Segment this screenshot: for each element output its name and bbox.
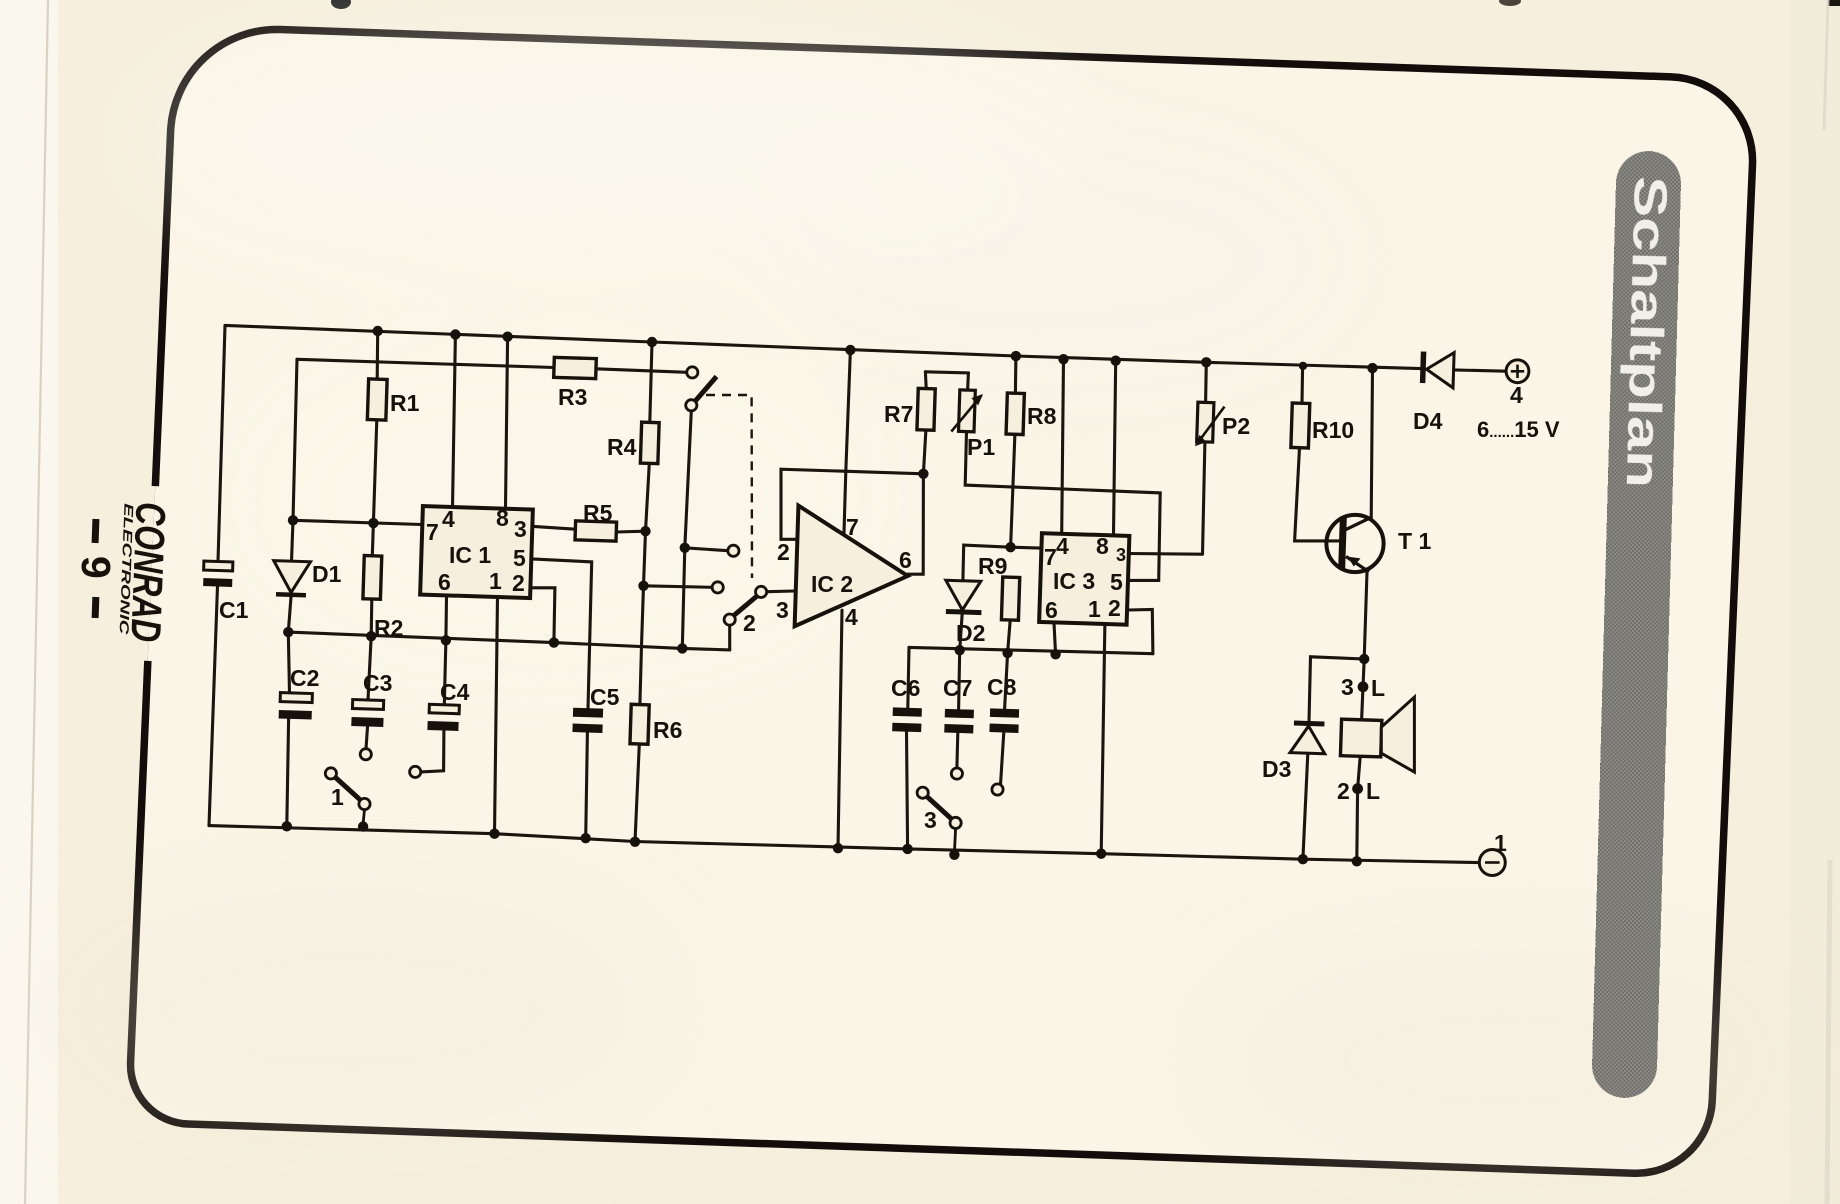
wire C8 top lead (1005, 653, 1008, 709)
capacitor C7 (944, 709, 974, 734)
junction node (1363,686.8) (1358, 681, 1369, 692)
minus terminal 1 (1479, 850, 1505, 876)
capacitor C8 (989, 708, 1019, 733)
svg-text:2: 2 (1337, 778, 1350, 804)
wire IC3 pin1 to ground (1101, 623, 1105, 854)
wire R2 bottom lead (370, 599, 374, 636)
svg-text:IC 2: IC 2 (811, 571, 853, 597)
wire IC3 pin8 supply (1114, 361, 1116, 535)
svg-text:P1: P1 (967, 434, 995, 460)
svg-text:5: 5 (1110, 569, 1123, 595)
diode D1 (273, 561, 311, 598)
wire switch2b to IC2 pin3 (767, 589, 795, 593)
svg-text:8: 8 (496, 505, 509, 531)
junction node (907.6,848.9) (902, 844, 912, 854)
junction node (1010.6,547.2) (1005, 542, 1015, 552)
wire P2 bottom lead (1203, 442, 1205, 554)
svg-text:L: L (1366, 778, 1380, 804)
switch 3 (917, 787, 961, 853)
diode D2 (945, 580, 983, 615)
wire C6 top lead (908, 647, 909, 707)
switch 2b (712, 545, 767, 625)
wire IC1 pin5 to C5 (532, 559, 592, 708)
svg-text:1: 1 (489, 568, 502, 594)
capacitor C3 open terminal (360, 749, 371, 760)
junction node (286.8,826.3) (282, 821, 292, 831)
wire C3 top lead (368, 636, 371, 700)
svg-text:C1: C1 (219, 597, 249, 623)
wire C4 bottom stub (421, 730, 444, 772)
junction node (1015.9,356.1) (1011, 351, 1021, 361)
svg-text:C5: C5 (590, 684, 620, 710)
wire mid rail to IC1 pin7 (293, 520, 422, 524)
wire C5 bottom lead (586, 733, 588, 839)
resistor R10 (1291, 403, 1310, 448)
resistor R7 (917, 388, 935, 430)
junction node (585.7,838.2) (581, 833, 591, 843)
switch 2a (686, 367, 717, 411)
svg-text:3: 3 (1116, 545, 1126, 565)
junction node (954.4,854.8) (949, 850, 959, 860)
svg-text:1: 1 (1494, 830, 1507, 856)
svg-text:C2: C2 (290, 665, 319, 691)
junction node (923.4,473.8) (918, 469, 928, 479)
wire R10 top lead (1300, 366, 1304, 403)
svg-text:C7: C7 (943, 675, 972, 701)
switch 1 (325, 768, 370, 824)
svg-text:7: 7 (426, 519, 439, 545)
speaker horn (1381, 697, 1414, 772)
diode D4 (1420, 351, 1454, 387)
potentiometer P1 (951, 390, 983, 433)
svg-text:3: 3 (514, 516, 527, 542)
wire R6 bottom lead (635, 744, 639, 842)
capacitor C8 open terminal (992, 784, 1003, 795)
wire switch2b stub (728, 625, 731, 650)
junction node (373.4,523.1) (368, 518, 378, 528)
svg-text:3: 3 (924, 807, 937, 833)
junction node (377.7,331) (373, 326, 383, 336)
wire C7 bottom lead (955, 733, 959, 768)
junction node (445.9,640.3) (441, 635, 451, 645)
wire P1 top lead (966, 373, 970, 390)
svg-text:C4: C4 (440, 679, 470, 705)
junction node (1055.6,654.3) (1050, 649, 1060, 659)
wire IC1 pin6 to C4 (444, 596, 446, 705)
svg-text:Schaltplan: Schaltplan (1617, 176, 1677, 489)
svg-text:2: 2 (512, 570, 525, 596)
resistor R8 (1006, 393, 1024, 435)
junction node (553.9,642.6) (549, 637, 559, 647)
svg-text:T 1: T 1 (1398, 528, 1431, 554)
wire R8 top lead (1014, 356, 1018, 393)
wire D1 cathode to C2 (288, 595, 291, 693)
capacitor C6 (892, 707, 922, 732)
wire R5 to R4 node (616, 530, 645, 534)
wire D1 anode chain (292, 359, 298, 561)
resistor R1 (367, 379, 387, 420)
svg-text:9: 9 (73, 556, 119, 579)
wire L coil bottom (1357, 757, 1360, 862)
resistor R6 (630, 704, 649, 744)
svg-text:5: 5 (513, 545, 526, 571)
wire top supply rail (225, 325, 1420, 368)
junction node (1101.2,853.7) (1096, 849, 1106, 859)
svg-text:8: 8 (1096, 533, 1109, 559)
wire IC2 output to node (908, 474, 924, 574)
junction dots layer (282, 326, 1378, 867)
junction node (959.7,650.2) (955, 645, 965, 655)
wire C6 bottom lead (907, 732, 908, 849)
wire D2 bottom lead (960, 614, 963, 651)
svg-text:R9: R9 (978, 553, 1007, 579)
Schaltplan banner (1591, 150, 1682, 1098)
wire IC1 pin8 supply (506, 337, 508, 508)
wire C1 top lead (218, 325, 225, 561)
svg-text:1: 1 (331, 784, 344, 810)
wire IC1 pin4 supply (453, 335, 456, 508)
wire D4 to plus terminal (1453, 370, 1506, 371)
wire R7-P1 bridge (925, 372, 968, 373)
svg-text:R6: R6 (653, 717, 682, 743)
junction node (684.8,547.8) (680, 543, 690, 553)
svg-text:R7: R7 (884, 401, 913, 427)
wire R3 row left segment (297, 359, 554, 367)
junction node (1302.9,859.2) (1298, 854, 1308, 864)
capacitor C5 (572, 708, 603, 733)
junction node (455.4,334.5) (450, 329, 460, 339)
timer IC1 box (420, 506, 533, 598)
wire R1 top lead (376, 331, 380, 379)
timer IC3 box (1039, 533, 1129, 625)
junction node (1364.2,659) (1359, 654, 1369, 664)
svg-text:4: 4 (442, 506, 455, 532)
wire IC2 pin4 to ground (838, 610, 842, 848)
junction node (635,841.8) (630, 837, 640, 847)
svg-text:C3: C3 (363, 670, 392, 696)
wire C8 bottom lead (1001, 732, 1004, 783)
wire IC3 pin3 to P2 (1128, 552, 1202, 556)
svg-text:D2: D2 (956, 620, 985, 646)
junction node (1115.7,360.7) (1111, 356, 1121, 366)
wire switch2 gang dashed link (706, 395, 752, 578)
capacitor C3 (351, 699, 384, 726)
wire R9 bottom lead (1008, 620, 1011, 653)
wire R7 top lead (924, 372, 928, 389)
resistor R2 (363, 556, 382, 600)
wire R4 to R6 chain (640, 463, 649, 704)
svg-text:R1: R1 (390, 390, 420, 416)
potentiometer P2 (1195, 402, 1225, 447)
svg-text:2: 2 (1108, 595, 1121, 621)
capacitor C2 (279, 693, 313, 720)
wire T1 collector supply (1371, 368, 1372, 520)
capacitor C1 (203, 561, 233, 587)
wire IC2 feedback pin2 (781, 469, 923, 539)
plus terminal 4 (1506, 360, 1529, 383)
svg-text:2: 2 (743, 610, 756, 636)
junction node (682.3,648.4) (677, 643, 687, 653)
svg-text:2: 2 (777, 539, 790, 565)
wire C-group rail (909, 647, 1153, 653)
junction node (850.4,350) (845, 345, 855, 355)
wire IC3 pin6 lead (1054, 623, 1056, 654)
wire C1 bottom lead (209, 586, 218, 826)
resistor R5 (575, 521, 617, 541)
svg-text:R2: R2 (374, 615, 403, 641)
svg-text:D1: D1 (312, 561, 342, 587)
wire P2 top lead (1204, 362, 1208, 402)
wire IC3 pin4 supply (1062, 359, 1064, 534)
svg-text:3: 3 (776, 597, 789, 623)
junction node (494.5,833.7) (489, 829, 499, 839)
transistor T1 (1326, 515, 1383, 572)
junction node (371.2,636.2) (366, 631, 376, 641)
junction node (1063.5,359.2) (1058, 354, 1068, 364)
resistor R4 (640, 422, 659, 464)
capacitor C4 (427, 704, 459, 731)
svg-text:R4: R4 (607, 434, 637, 460)
svg-text:IC 1: IC 1 (449, 542, 491, 568)
svg-text:C8: C8 (987, 674, 1017, 700)
wire C7 top lead (959, 650, 960, 709)
wire C3 bottom lead (366, 727, 368, 749)
junction node (363.1,826.5) (358, 821, 368, 831)
svg-text:D4: D4 (1413, 408, 1443, 434)
wire L coil top (1362, 659, 1365, 720)
svg-text:1: 1 (1088, 596, 1101, 622)
svg-text:3: 3 (1341, 674, 1354, 700)
svg-text:R3: R3 (558, 384, 587, 410)
CONRAD ELECTRONIC logo (116, 501, 174, 643)
svg-text:R8: R8 (1027, 403, 1057, 429)
junction node (645.5,531.2) (640, 526, 650, 536)
wire node to D3 (1309, 657, 1364, 722)
svg-text:L: L (1371, 675, 1385, 701)
junction node (1357.6,788.7) (1352, 783, 1363, 794)
diode D3 (1290, 720, 1326, 753)
wire R3 to switch contact (596, 369, 687, 373)
wire IC1 pin1 to ground (495, 596, 498, 833)
wire IC3 pin2 drop (1128, 610, 1153, 654)
relay coil L box (1340, 719, 1381, 757)
resistor R3 (554, 357, 597, 378)
junction node (643.5,585.8) (638, 581, 648, 591)
svg-text:7: 7 (1044, 544, 1057, 570)
wire node to contact c (685, 548, 728, 551)
wire R10 to T1 base (1295, 448, 1339, 541)
wire R4 top lead (650, 342, 652, 422)
resistor R9 (1001, 577, 1019, 620)
svg-text:R5: R5 (583, 500, 613, 526)
capacitor C7 open terminal (951, 768, 962, 779)
wire C2 bottom lead (287, 719, 289, 826)
junction node (1206.3,362.3) (1201, 357, 1211, 367)
junction node (1007.6,652.9) (1002, 648, 1012, 658)
border gap for logo (135, 486, 167, 662)
wire R2 top lead (372, 523, 373, 556)
svg-text:4: 4 (1056, 533, 1069, 559)
wire IC3 pin7 row (963, 545, 1041, 581)
junction node (838,848.2) (833, 843, 843, 853)
junction node (652,342) (647, 337, 657, 347)
wire node to contact d (644, 586, 713, 588)
wire switch2a pole drop (682, 411, 691, 649)
svg-text:6: 6 (899, 547, 912, 573)
svg-text:4: 4 (845, 604, 858, 630)
op-amp IC2 triangle (795, 506, 910, 630)
capacitor C4 open terminal (410, 766, 421, 777)
svg-text:C6: C6 (891, 675, 920, 701)
page number - 9 - (73, 519, 119, 618)
svg-text:6: 6 (1045, 597, 1058, 623)
svg-text:4: 4 (1510, 382, 1523, 408)
wire P1 bottom to IC3 pin5 (965, 432, 1160, 581)
wire R8 bottom lead (1011, 434, 1015, 547)
svg-text:D3: D3 (1262, 756, 1291, 782)
wire R1 bottom to node (373, 420, 376, 523)
svg-text:R10: R10 (1312, 417, 1354, 443)
svg-text:IC 3: IC 3 (1053, 568, 1095, 594)
wire bottom ground rail (209, 826, 1480, 863)
junction node (288.3,632.1) (283, 627, 293, 637)
svg-text:6: 6 (438, 569, 451, 595)
junction node (507.6,336.7) (502, 332, 512, 342)
junction node (293,520.3) (288, 515, 298, 525)
svg-text:7: 7 (846, 514, 859, 540)
wire D3 bottom lead (1303, 753, 1308, 859)
wire IC1 pin3 to R5 (532, 526, 576, 529)
wire IC2 pin7 supply (844, 350, 850, 533)
junction node (1356.8,861.3) (1352, 856, 1362, 866)
wire T1 emitter down (1364, 572, 1367, 659)
wire R7 bottom lead (923, 430, 926, 474)
wire IC1 pin2 drop (532, 588, 555, 643)
svg-text:P2: P2 (1222, 413, 1250, 439)
wire mid-low rail (288, 632, 729, 650)
IC pin number labels (426, 505, 1126, 630)
junction node (1372.5,368.1) (1367, 363, 1377, 373)
